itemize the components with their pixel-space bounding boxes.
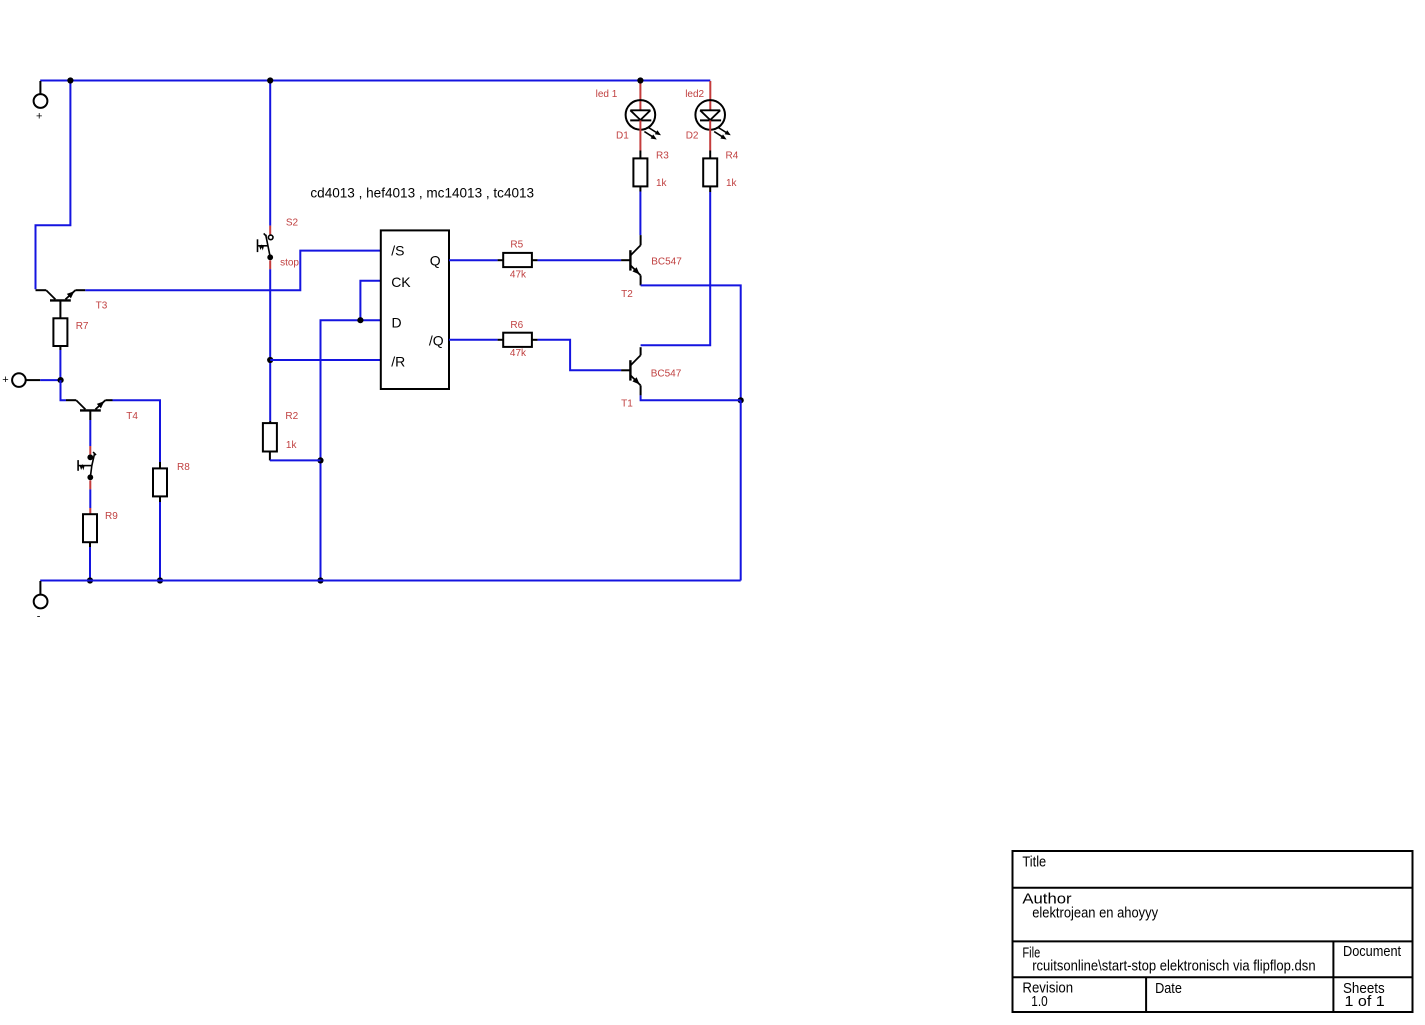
resistor R8 [153, 468, 167, 496]
wire R6 to T1 base [532, 340, 621, 371]
svg-text:T2: T2 [621, 289, 633, 300]
title block Date [1155, 980, 1182, 997]
wire R8 to ground rail [159, 496, 161, 580]
pin label D [392, 315, 402, 331]
svg-text:47k: 47k [510, 348, 527, 359]
svg-text:R4: R4 [726, 151, 739, 162]
switch S1 (start button) [78, 452, 96, 480]
svg-text:BC547: BC547 [651, 257, 682, 268]
svg-text:R3: R3 [656, 151, 669, 162]
label T4 [126, 411, 138, 422]
title block revision value [1031, 993, 1047, 1010]
svg-text:S2: S2 [286, 218, 299, 229]
svg-text:1.0: 1.0 [1031, 993, 1047, 1010]
title block Author [1022, 891, 1071, 908]
label T3 [96, 300, 108, 311]
svg-text:R8: R8 [177, 462, 190, 473]
junction R8/ground [157, 577, 163, 583]
pin label CK [391, 274, 411, 290]
svg-text:Title: Title [1022, 854, 1046, 871]
svg-text:stop: stop [280, 257, 299, 268]
resistor R6 [503, 333, 532, 347]
junction rail/T3 branch [67, 77, 73, 83]
svg-text:Date: Date [1155, 980, 1182, 997]
wire D1 cathode to R3 [639, 120, 641, 158]
label cd4013 types [310, 184, 534, 200]
wire R7 to + node [59, 346, 61, 380]
label S2 [286, 218, 299, 229]
wire T4 emitter to R8 [113, 400, 161, 468]
svg-text:R7: R7 [76, 321, 89, 332]
wire rail branch to T3 collector [36, 81, 71, 290]
wire D input [321, 320, 381, 580]
flip-flop U1 (cd4013) box [381, 230, 449, 389]
wire emitter node to ground rail [740, 400, 742, 580]
junction rail/led1 branch [637, 77, 643, 83]
transistor T2 (BC547) [621, 235, 641, 285]
svg-text:1k: 1k [726, 178, 738, 189]
svg-text:T1: T1 [621, 399, 633, 410]
title block author name [1032, 905, 1158, 922]
wire /Q output to R6 [449, 339, 503, 341]
label R8 [177, 462, 190, 473]
battery terminal + (top left) [34, 81, 48, 122]
resistor R2 [263, 423, 277, 451]
pin label /S [391, 243, 404, 259]
title block Revision [1022, 980, 1073, 997]
resistor R7 [53, 318, 67, 346]
svg-text:T3: T3 [96, 300, 108, 311]
title block frame [1013, 851, 1413, 1012]
title block file name [1032, 958, 1315, 975]
junction D net / ground rail [317, 577, 323, 583]
resistor R9 [83, 514, 97, 542]
wire R5 to T2 base [532, 259, 621, 261]
led D2 [695, 100, 730, 139]
junction rail/S2 branch [267, 77, 273, 83]
transistor T1 (BC547) [621, 347, 641, 395]
title block File [1022, 945, 1040, 962]
wire S2 to /R junction [269, 269, 271, 360]
svg-text:led2: led2 [685, 89, 704, 100]
resistor R4 [703, 158, 717, 186]
title block Title [1022, 854, 1046, 871]
wire D2 cathode to R4 [709, 120, 711, 158]
wire /R input [270, 359, 381, 361]
wire T1 emitter to junction [641, 395, 741, 400]
svg-text:rcuitsonline\start-stop elektr: rcuitsonline\start-stop elektronisch via… [1032, 958, 1315, 975]
label D2 [686, 131, 699, 142]
label R9 [105, 511, 118, 522]
wire Q output to R5 [449, 259, 503, 261]
wire R2 bottom to D net [270, 452, 321, 461]
svg-text:R6: R6 [510, 320, 523, 331]
switch S1 pin bottom (red) [89, 480, 91, 489]
svg-text:Q: Q [430, 253, 441, 269]
junction CK/D [357, 317, 363, 323]
wire R3 to T2 collector [639, 186, 641, 235]
label R4 [726, 151, 739, 162]
wire switch to R9 [89, 489, 91, 514]
svg-text:T4: T4 [126, 411, 138, 422]
wire rail to led1 anode [639, 81, 641, 110]
pin label Q [430, 253, 441, 269]
svg-text:1k: 1k [656, 178, 668, 189]
resistor R5 [503, 253, 532, 267]
junction + node [58, 377, 64, 383]
junction R9/ground [87, 577, 93, 583]
svg-text:cd4013 , hef4013 , mc14013 , t: cd4013 , hef4013 , mc14013 , tc4013 [310, 184, 534, 200]
svg-text:+: + [36, 110, 42, 122]
wire rail to S2 [269, 81, 271, 226]
label R4 value 1k [726, 178, 738, 189]
switch S2 [258, 233, 274, 260]
wire rail corner to led2 anode [709, 81, 711, 110]
label R5 [510, 239, 523, 250]
label R6 [510, 320, 523, 331]
wire + node to T4 collector [61, 380, 67, 400]
svg-text:1k: 1k [286, 440, 298, 451]
title block sheets value [1345, 993, 1385, 1010]
pin label /R [391, 354, 405, 370]
svg-text:D: D [392, 315, 402, 331]
label T2 [621, 289, 633, 300]
svg-text:+: + [2, 374, 8, 386]
svg-text:elektrojean en ahoyyy: elektrojean en ahoyyy [1032, 905, 1158, 922]
svg-text:47k: 47k [510, 269, 527, 280]
pin label /Q [429, 333, 444, 349]
wire R9 to ground rail [89, 542, 91, 580]
label R7 [76, 321, 89, 332]
label R6 value 47k [510, 348, 527, 359]
label BC547 (T2) [651, 257, 682, 268]
svg-text:Revision: Revision [1022, 980, 1073, 997]
junction T1/T2 emitters [738, 397, 744, 403]
label R3 value 1k [656, 178, 668, 189]
wire T2 emitter down [641, 285, 741, 400]
svg-text:-: - [37, 611, 41, 623]
svg-text:1 of 1: 1 of 1 [1345, 993, 1385, 1010]
resistor R3 [633, 158, 647, 186]
wire T4 base to switch [89, 420, 91, 454]
label BC547 (T1) [651, 368, 682, 379]
title block Sheets [1343, 980, 1385, 997]
svg-text:R2: R2 [285, 411, 298, 422]
label D1 [616, 131, 629, 142]
label led 1 [596, 89, 618, 100]
label R2 value 1k [286, 440, 298, 451]
wire top +V rail [40, 80, 710, 82]
label stop [280, 257, 299, 268]
svg-text:/S: /S [391, 243, 404, 259]
led D1 [626, 100, 661, 139]
junction D net / R2 return [317, 457, 323, 463]
svg-text:R5: R5 [510, 239, 523, 250]
svg-text:led 1: led 1 [596, 89, 618, 100]
wire R4 to T1 collector [641, 186, 711, 345]
wire CK input [360, 281, 380, 320]
transistor T4 [66, 400, 113, 420]
junction /R node [267, 357, 273, 363]
battery terminal + (middle left) [2, 373, 60, 387]
svg-text:Document: Document [1343, 943, 1402, 960]
transistor T3 [36, 290, 86, 318]
svg-text:R9: R9 [105, 511, 118, 522]
label R3 [656, 151, 669, 162]
svg-text:CK: CK [391, 274, 411, 290]
label R2 [285, 411, 298, 422]
switch S2 pin top (red) [269, 226, 271, 235]
svg-text:D1: D1 [616, 131, 629, 142]
wire ground rail [40, 580, 741, 582]
battery terminal - (bottom left) [34, 581, 48, 623]
label R5 value 47k [510, 269, 527, 280]
svg-text:/R: /R [391, 354, 405, 370]
wire T3 emitter to /S input [85, 251, 381, 291]
svg-text:/Q: /Q [429, 333, 444, 349]
svg-text:D2: D2 [686, 131, 699, 142]
switch S2 pin bottom (red) [269, 260, 271, 269]
title block Document [1343, 943, 1402, 960]
label led2 [685, 89, 704, 100]
wire /R junction to R2 [269, 360, 271, 423]
label T1 [621, 399, 633, 410]
svg-text:BC547: BC547 [651, 368, 682, 379]
